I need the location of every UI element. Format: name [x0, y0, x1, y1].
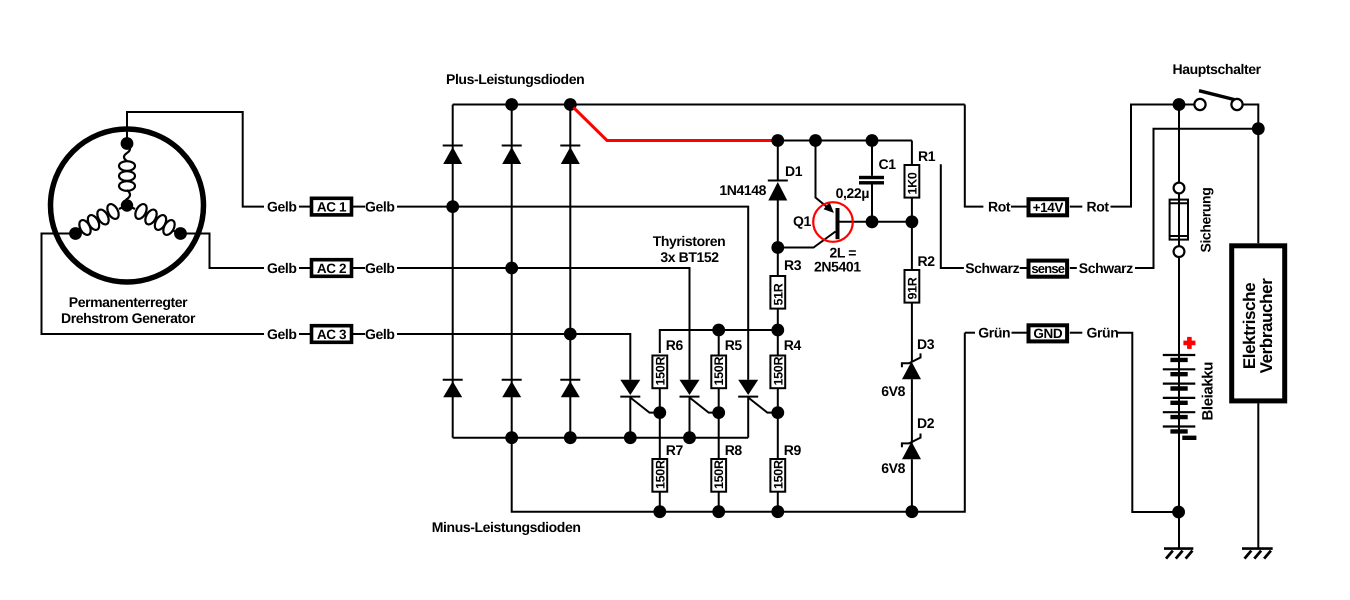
svg-text:R3: R3 [784, 257, 802, 273]
battery plus sign [1183, 337, 1195, 349]
capacitor C1 0,22u [859, 141, 884, 222]
wire bridge phase 3 vertical [569, 105, 571, 438]
wire sense box to Schwarz [1070, 267, 1077, 269]
transistor Q1 2N5401 [778, 141, 912, 248]
svg-text:6V8: 6V8 [881, 383, 905, 399]
fuse F1 bottom terminal [1174, 246, 1185, 257]
svg-text:Sicherung: Sicherung [1198, 188, 1214, 253]
diode D-minus-3 [560, 380, 580, 398]
svg-text:GND: GND [1033, 326, 1062, 341]
diode D1 1N4148 [768, 141, 788, 248]
svg-text:D1: D1 [785, 163, 803, 179]
wire plus bus [453, 104, 965, 106]
svg-text:D3: D3 [917, 336, 935, 352]
node R1/R2 junction [906, 215, 919, 228]
wire GND box to Gruen [1070, 332, 1083, 334]
svg-text:Schwarz: Schwarz [1079, 260, 1133, 276]
wire +14V box to Rot [1070, 206, 1083, 208]
svg-text:51R: 51R [771, 283, 785, 305]
node plus bus phase 3 [564, 98, 577, 111]
svg-text:Rot: Rot [1087, 199, 1110, 215]
diode D-minus-2 [502, 380, 522, 398]
svg-text:R9: R9 [784, 442, 802, 458]
Q1 base bar [836, 208, 840, 239]
svg-text:C1: C1 [879, 156, 897, 172]
node generator star point [121, 199, 133, 211]
battery plates [1163, 355, 1196, 431]
resistor R2 91R [905, 222, 920, 362]
ground (battery) [1164, 549, 1193, 559]
zener diode D3 6V8 [902, 353, 921, 443]
diode D-minus-1 [443, 380, 463, 398]
diode D-plus-2 [502, 146, 522, 165]
Q1 collector lead [778, 232, 836, 248]
svg-text:R6: R6 [666, 337, 684, 353]
wire AC1 box to Gelb [353, 206, 365, 208]
node AC3 / phase 3 junction [564, 328, 577, 341]
battery B1 Bleiakku [1163, 337, 1197, 548]
resistor R5 150R [711, 330, 726, 458]
wire AC1 line to thyristor Q4 anode [453, 207, 749, 380]
Q1 circle [813, 202, 853, 242]
svg-text:6V8: 6V8 [881, 460, 905, 476]
svg-text:Permanenterregter: Permanenterregter [69, 294, 188, 310]
svg-text:150R: 150R [771, 460, 785, 489]
svg-text:Gelb: Gelb [365, 260, 395, 276]
wire Gelb to AC3 box [299, 333, 310, 335]
connector +14V [1029, 199, 1068, 215]
resistor R3 51R [770, 248, 785, 331]
generator G1 (Permanenterregter Drehstrom Generator) [51, 129, 204, 326]
svg-text:3x BT152: 3x BT152 [660, 249, 719, 265]
wire red feed from plus bus [574, 108, 778, 141]
svg-text:R1: R1 [918, 148, 936, 164]
svg-text:sense: sense [1031, 261, 1064, 276]
node battery minus / ground junction [1172, 506, 1185, 519]
svg-text:Grün: Grün [978, 325, 1010, 341]
battery minus sign [1182, 436, 1196, 440]
svg-text:150R: 150R [771, 357, 785, 386]
node zener D2 anode [906, 505, 919, 518]
main switch S1 [1179, 91, 1258, 129]
resistor R1 1K0 [905, 141, 920, 222]
svg-text:150R: 150R [653, 357, 667, 386]
wire battery branch from switch [1178, 105, 1180, 183]
diode D-plus-3 [560, 146, 580, 165]
svg-text:R5: R5 [725, 337, 743, 353]
wire AC3 to bridge phase 3 [397, 333, 570, 335]
svg-text:Rot: Rot [988, 199, 1011, 215]
node gate Q3 junction [712, 406, 725, 419]
resistor R8 150R [711, 459, 726, 512]
svg-text:Gelb: Gelb [267, 326, 297, 342]
svg-text:R2: R2 [918, 253, 936, 269]
node R9 bottom [771, 505, 784, 518]
coil phase V (to right) [129, 202, 181, 237]
node minus bus thyristor Q3 cathode [683, 431, 696, 444]
svg-text:91R: 91R [905, 277, 919, 299]
coil phase W (to left) [74, 202, 126, 237]
svg-text:Drehstrom Generator: Drehstrom Generator [61, 310, 196, 326]
connector sense [1029, 261, 1068, 277]
node R5 top [712, 324, 725, 337]
connector AC 1 [312, 198, 352, 215]
wire Gelb to AC1 box [299, 206, 310, 208]
connector AC 3 [312, 326, 352, 343]
svg-text:AC 1: AC 1 [317, 200, 347, 215]
wire Schwarz to sense box [1020, 267, 1027, 269]
svg-text:0,22µ: 0,22µ [836, 185, 870, 201]
svg-text:150R: 150R [653, 460, 667, 489]
wire bridge phase 1 vertical [452, 105, 454, 438]
battery center conductor [1178, 355, 1180, 548]
svg-text:Schwarz: Schwarz [965, 260, 1019, 276]
svg-text:Q1: Q1 [793, 213, 811, 229]
svg-text:1K0: 1K0 [905, 172, 919, 194]
node Q1 emitter tap [809, 134, 822, 147]
connector AC 2 [312, 260, 352, 277]
node Q1 collector / D1 anode [771, 241, 784, 254]
svg-text:Gelb: Gelb [365, 199, 395, 215]
wire bridge phase 2 vertical [511, 105, 513, 438]
thyristor Q4 (BT152) [738, 380, 778, 438]
svg-text:Gelb: Gelb [267, 199, 297, 215]
coil phase U (vertical) [119, 144, 135, 205]
node minus bus phase 3 [564, 431, 577, 444]
svg-text:AC 3: AC 3 [317, 327, 347, 342]
node sense tap after switch [1252, 122, 1265, 135]
zener diode D2 6V8 [902, 434, 921, 512]
Q1 emitter lead [816, 141, 831, 210]
resistor R4 150R [770, 330, 785, 458]
Q1 base lead [840, 221, 912, 223]
node AC1 / phase 1 junction [446, 200, 459, 213]
wire AC2 box to Gelb [353, 267, 365, 269]
node gate Q2 junction [653, 406, 666, 419]
svg-text:R4: R4 [784, 337, 802, 353]
svg-text:Thyristoren: Thyristoren [653, 233, 726, 249]
node generator phase V terminal [174, 227, 187, 240]
node R8 bottom [712, 505, 725, 518]
wire sense line from switch [1135, 129, 1258, 268]
wire gate drive line [660, 330, 778, 353]
fuse F1 top terminal [1174, 183, 1185, 194]
node C1 bottom / base line [866, 215, 879, 228]
node plus bus phase 2 [505, 98, 518, 111]
svg-text:Gelb: Gelb [365, 326, 395, 342]
wire generator W to AC3 [42, 234, 265, 335]
thyristor Q3 (BT152) [680, 380, 719, 438]
resistor R6 150R [652, 356, 667, 459]
wire AC2 line to thyristor Q3 anode [512, 268, 690, 380]
resistor R7 150R [652, 459, 667, 512]
fuse F1 body [1170, 193, 1188, 246]
wire GND riser [965, 332, 975, 334]
svg-text:Bleiakku: Bleiakku [1200, 362, 1217, 421]
svg-text:Hauptschalter: Hauptschalter [1173, 61, 1262, 77]
resistor R9 150R [770, 459, 785, 512]
wire minus bus [453, 437, 749, 439]
node gate Q4 junction [771, 406, 784, 419]
svg-text:150R: 150R [712, 357, 726, 386]
wire generator V to AC2 [181, 234, 265, 269]
node minus bus phase 2 [505, 431, 518, 444]
svg-text:AC 2: AC 2 [317, 261, 346, 276]
wire AC2 to bridge phase 2 [397, 267, 512, 269]
wire generator U to AC1 [127, 112, 264, 207]
svg-text:R8: R8 [725, 442, 743, 458]
svg-text:Grün: Grün [1087, 325, 1119, 341]
node R4 top / R3 bottom [771, 324, 784, 337]
node switch / battery junction [1173, 98, 1186, 111]
wire AC1 to bridge phase 1 [397, 206, 453, 208]
svg-text:1N4148: 1N4148 [719, 182, 766, 198]
wire sense stub to R1 area [941, 164, 964, 268]
ground (load) [1242, 549, 1273, 559]
load box Elektrische Verbraucher [1232, 129, 1285, 548]
wire regulator supply rail [778, 140, 912, 142]
wire Gruen to battery minus [1118, 333, 1179, 512]
wire Rot to +14V box [1011, 206, 1027, 208]
svg-text:+14V: +14V [1033, 200, 1064, 215]
svg-text:150R: 150R [712, 460, 726, 489]
wire Gelb to AC2 box [299, 267, 310, 269]
svg-text:Verbraucher: Verbraucher [1257, 278, 1276, 374]
node minus bus thyristor Q2 cathode [624, 431, 637, 444]
node R7 bottom [653, 505, 666, 518]
wire +14V riser from plus bus [965, 105, 984, 207]
svg-text:Minus-Leistungsdioden: Minus-Leistungsdioden [432, 519, 581, 535]
thyristor Q2 (BT152) [620, 380, 660, 438]
diode D-plus-1 [443, 146, 463, 165]
generator body circle [51, 129, 204, 282]
wire fuse to battery [1178, 257, 1180, 355]
wire AC3 line to thyristor Q2 anode [570, 334, 630, 380]
svg-text:2N5401: 2N5401 [814, 259, 861, 275]
wire AC3 box to Gelb [353, 333, 365, 335]
connector GND [1029, 325, 1068, 341]
node generator phase W terminal [69, 227, 82, 240]
wire ground bus (regulator) [512, 333, 965, 512]
svg-text:Plus-Leistungsdioden: Plus-Leistungsdioden [446, 71, 584, 87]
node AC2 / phase 2 junction [505, 262, 518, 275]
svg-text:D2: D2 [917, 415, 935, 431]
node C1 top tap [866, 134, 879, 147]
svg-text:Gelb: Gelb [267, 260, 297, 276]
node generator phase U terminal [121, 137, 134, 150]
wire Gruen to GND box [1012, 332, 1027, 334]
wire Rot to main switch [1111, 105, 1180, 207]
node D1 cathode / red feed [771, 134, 784, 147]
svg-text:R7: R7 [666, 442, 684, 458]
